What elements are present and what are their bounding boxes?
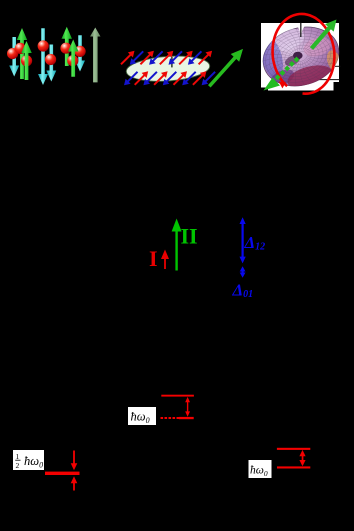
mesh [259, 23, 340, 90]
level n=1 (middle) [161, 395, 194, 397]
spin-down arrow a4 [38, 28, 48, 85]
spin-down arrow a5 [46, 45, 56, 82]
level n=1 (right) [277, 448, 310, 450]
svg-text:1: 1 [16, 452, 20, 461]
spin-up arrow a3 [21, 41, 32, 80]
svg-text:2: 2 [16, 461, 20, 470]
level n=0 (right) [277, 466, 310, 468]
box bottom edge [300, 79, 340, 81]
converge arrow down [71, 451, 78, 471]
dotted precession axis arrow [264, 57, 300, 91]
white plot pane [261, 23, 339, 91]
spin-up arrow a2 [17, 28, 27, 79]
svg-text:I: I [149, 246, 158, 271]
hw0 label box (middle) [128, 407, 156, 425]
spacing arrow (middle) [185, 397, 190, 417]
ground level line (left) [45, 472, 80, 475]
torus hole [293, 52, 303, 60]
zero point energy label box [13, 450, 44, 470]
z axis line [300, 23, 302, 37]
spacing arrow (right) [299, 450, 305, 466]
disk normal tick [171, 57, 173, 68]
mode II arrow [172, 219, 182, 271]
precession circle [273, 14, 335, 94]
svg-text:II: II [181, 223, 198, 248]
spin-up arrow a8 [68, 40, 79, 77]
atom spheres cluster 2 [38, 40, 49, 51]
spin-up arrow a6 [62, 27, 73, 66]
spin-down arrow a1 [9, 37, 19, 77]
panel (c) precession torus plot [256, 14, 346, 95]
disk [125, 54, 210, 84]
solid axis arrow [310, 20, 337, 50]
spin-down arrow a7 [75, 35, 85, 71]
level n=0 dashes (middle) [161, 417, 181, 419]
box right tick [335, 65, 341, 67]
converge arrow up [71, 476, 78, 490]
top dimple notch [295, 23, 308, 38]
mode I arrow [161, 250, 169, 270]
circle arrowhead [279, 82, 286, 89]
net magnetization arrow [90, 28, 101, 83]
canted spins bottom row [124, 71, 216, 85]
field arrow (b) [208, 49, 243, 88]
Delta12 double arrow [240, 217, 246, 263]
panel (a) ferrimagnet spin lattice [7, 27, 101, 85]
canted spins top row [120, 51, 212, 65]
atom spheres cluster 1 [7, 48, 18, 59]
Delta01 double arrow [240, 266, 246, 277]
hw0 label box (right) [249, 460, 272, 478]
atom spheres cluster 3 [60, 43, 71, 54]
panel (b) canted spin disk [120, 49, 243, 88]
level n=0 solid (middle) [179, 417, 194, 419]
torus surface [256, 18, 346, 94]
